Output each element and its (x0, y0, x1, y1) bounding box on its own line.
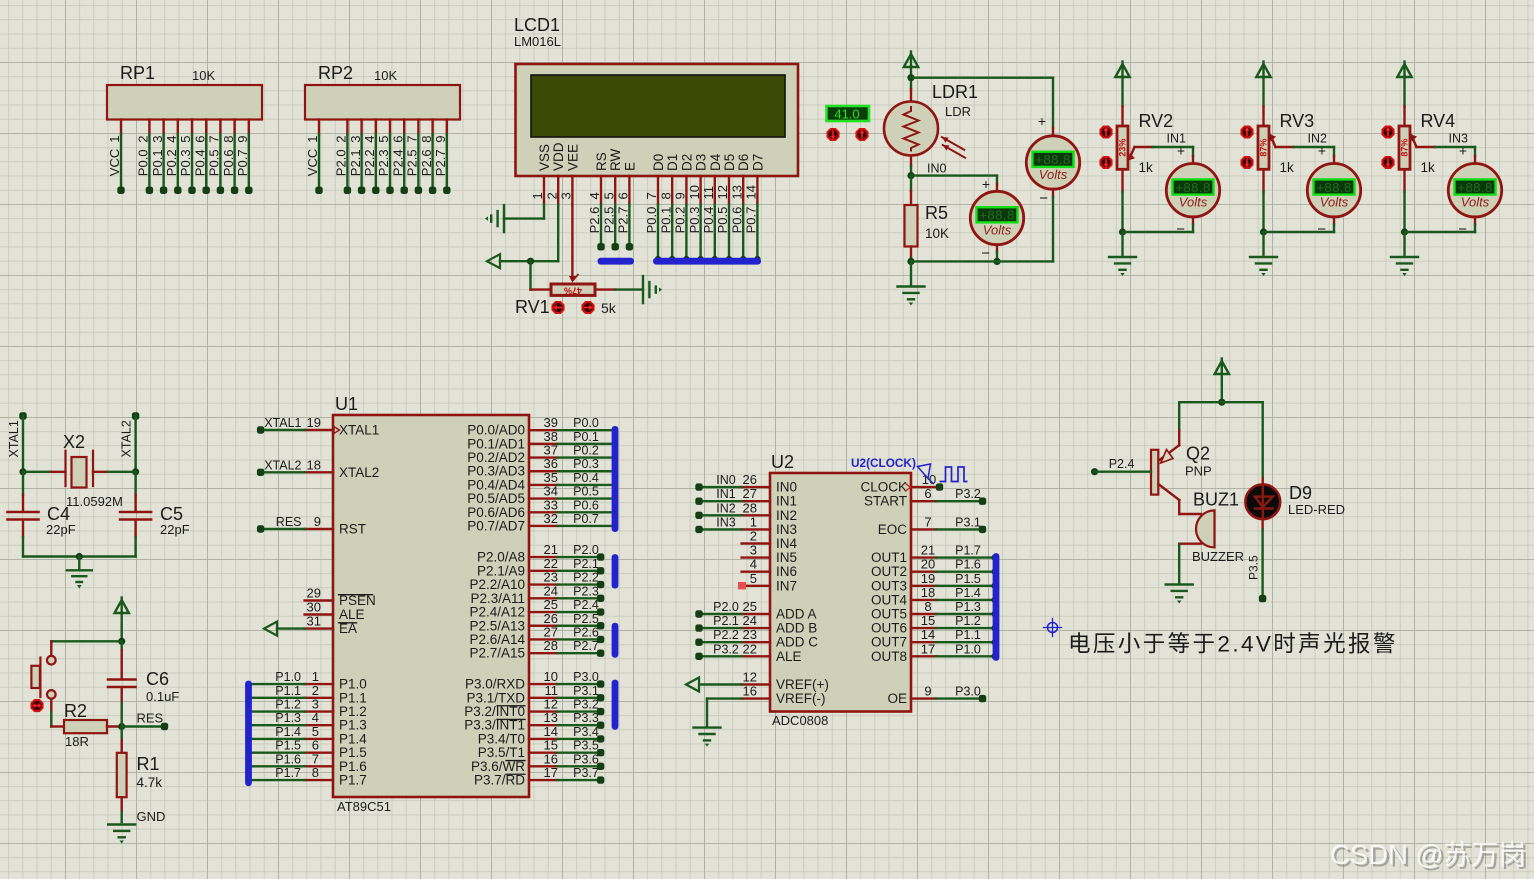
svg-text:9: 9 (673, 192, 688, 199)
svg-text:13: 13 (729, 185, 744, 199)
svg-text:RV1: RV1 (515, 297, 550, 317)
svg-text:P1.5: P1.5 (275, 739, 301, 753)
svg-text:P1.0: P1.0 (275, 670, 301, 684)
svg-text:P2.7/A15: P2.7/A15 (469, 646, 525, 661)
svg-text:ALE: ALE (339, 607, 365, 622)
svg-text:7: 7 (924, 514, 931, 529)
svg-text:P0.4: P0.4 (701, 207, 716, 234)
svg-text:9: 9 (924, 684, 931, 699)
svg-text:OUT1: OUT1 (871, 550, 907, 565)
svg-text:P0.6: P0.6 (729, 207, 744, 234)
svg-text:D7: D7 (750, 154, 765, 171)
svg-text:P1.1: P1.1 (275, 684, 301, 698)
svg-text:P3.2: P3.2 (573, 698, 599, 712)
svg-text:P3.2: P3.2 (955, 487, 981, 501)
svg-text:P2.3: P2.3 (376, 149, 391, 176)
svg-text:IN1: IN1 (716, 487, 736, 501)
svg-text:22pF: 22pF (46, 522, 76, 537)
svg-text:XTAL2: XTAL2 (339, 465, 379, 480)
svg-text:P1.2: P1.2 (275, 698, 301, 712)
svg-text:P2.6: P2.6 (419, 149, 434, 176)
svg-text:P3.5: P3.5 (1247, 555, 1261, 580)
svg-text:+88.8: +88.8 (1457, 180, 1492, 195)
svg-text:2: 2 (334, 136, 349, 143)
svg-text:P2.1: P2.1 (348, 149, 363, 176)
svg-text:ADC0808: ADC0808 (772, 713, 828, 728)
svg-text:2: 2 (750, 529, 757, 544)
svg-text:1k: 1k (1139, 160, 1154, 175)
svg-text:ALE: ALE (776, 649, 802, 664)
svg-text:3: 3 (348, 136, 363, 143)
svg-text:27: 27 (743, 486, 757, 501)
svg-text:BUZZER: BUZZER (1192, 549, 1244, 564)
svg-text:P0.6: P0.6 (221, 149, 236, 176)
svg-text:5: 5 (376, 136, 391, 143)
svg-text:PNP: PNP (1185, 464, 1212, 479)
svg-text:1: 1 (305, 136, 320, 143)
svg-text:P1.0: P1.0 (955, 642, 981, 656)
svg-text:2: 2 (136, 136, 151, 143)
svg-text:23: 23 (743, 627, 757, 642)
svg-text:P2.6: P2.6 (573, 625, 599, 639)
svg-text:Volts: Volts (983, 223, 1012, 238)
svg-text:P0.4: P0.4 (192, 149, 207, 176)
svg-text:1: 1 (750, 514, 757, 529)
svg-text:U2: U2 (771, 452, 794, 472)
svg-text:+88.8: +88.8 (1035, 152, 1070, 167)
svg-text:P2.4: P2.4 (390, 149, 405, 176)
svg-text:P0.7: P0.7 (573, 512, 599, 526)
svg-text:23%: 23% (1118, 139, 1128, 157)
svg-text:8: 8 (924, 599, 931, 614)
svg-text:ADD C: ADD C (776, 635, 818, 650)
svg-text:R5: R5 (925, 203, 948, 223)
svg-text:IN0: IN0 (716, 473, 736, 487)
svg-text:RP2: RP2 (318, 63, 353, 83)
svg-text:+: + (1038, 113, 1046, 129)
svg-text:30: 30 (307, 600, 321, 615)
svg-text:−: − (1317, 221, 1326, 238)
svg-text:RS: RS (594, 152, 609, 171)
svg-text:XTAL1: XTAL1 (264, 416, 301, 430)
svg-text:7: 7 (207, 136, 222, 143)
svg-text:VCC: VCC (305, 149, 320, 176)
svg-text:Volts: Volts (1320, 195, 1349, 210)
svg-text:10: 10 (687, 185, 702, 199)
svg-text:15: 15 (921, 613, 935, 628)
svg-text:8: 8 (312, 765, 319, 780)
svg-text:P2.2: P2.2 (362, 149, 377, 176)
svg-text:VDD: VDD (551, 142, 566, 171)
svg-text:19: 19 (921, 571, 935, 586)
svg-text:P3.6: P3.6 (573, 752, 599, 766)
svg-text:D1: D1 (665, 154, 680, 171)
svg-text:OUT2: OUT2 (871, 564, 907, 579)
svg-text:18: 18 (307, 457, 321, 472)
svg-text:26: 26 (743, 472, 757, 487)
svg-text:OUT8: OUT8 (871, 649, 907, 664)
svg-text:29: 29 (307, 586, 321, 601)
svg-text:U1: U1 (335, 394, 358, 414)
svg-text:P3.4: P3.4 (573, 725, 599, 739)
svg-text:17: 17 (544, 765, 558, 780)
svg-text:IN6: IN6 (776, 564, 797, 579)
svg-text:OUT6: OUT6 (871, 621, 907, 636)
svg-text:P1.3: P1.3 (955, 600, 981, 614)
svg-text:24: 24 (743, 613, 757, 628)
svg-text:P2.1: P2.1 (573, 557, 599, 571)
svg-text:START: START (864, 494, 907, 509)
svg-text:22: 22 (743, 641, 757, 656)
svg-text:18: 18 (921, 585, 935, 600)
svg-text:P1.3: P1.3 (275, 711, 301, 725)
svg-text:7: 7 (644, 192, 659, 199)
svg-text:P0.1: P0.1 (658, 207, 673, 234)
svg-text:7: 7 (405, 136, 420, 143)
svg-text:P0.2: P0.2 (164, 149, 179, 176)
svg-text:OUT3: OUT3 (871, 578, 907, 593)
svg-text:D9: D9 (1289, 483, 1312, 503)
svg-text:Volts: Volts (1039, 167, 1068, 182)
svg-text:RV2: RV2 (1139, 111, 1174, 131)
svg-text:4: 4 (164, 136, 179, 143)
svg-text:Volts: Volts (1179, 195, 1208, 210)
svg-text:IN5: IN5 (776, 550, 797, 565)
svg-text:+: + (982, 176, 990, 192)
svg-text:P1.5: P1.5 (955, 572, 981, 586)
svg-text:2: 2 (544, 192, 559, 199)
svg-text:P0.2: P0.2 (673, 207, 688, 234)
svg-text:14: 14 (921, 627, 935, 642)
svg-text:25: 25 (743, 599, 757, 614)
svg-text:D4: D4 (708, 153, 723, 171)
svg-text:1: 1 (530, 192, 545, 199)
svg-text:D6: D6 (736, 154, 751, 171)
svg-text:OUT4: OUT4 (871, 592, 907, 607)
svg-text:−: − (1176, 221, 1185, 238)
svg-text:4.7k: 4.7k (137, 775, 163, 790)
svg-text:IN3: IN3 (776, 522, 797, 537)
svg-text:4: 4 (587, 192, 602, 199)
svg-text:D0: D0 (651, 154, 666, 171)
svg-text:1k: 1k (1280, 160, 1295, 175)
svg-text:87%: 87% (1259, 139, 1269, 157)
svg-text:6: 6 (390, 136, 405, 143)
svg-text:10K: 10K (374, 68, 397, 83)
svg-text:11.0592M: 11.0592M (66, 494, 123, 509)
svg-text:P3.2: P3.2 (713, 642, 739, 656)
svg-text:IN0: IN0 (927, 162, 947, 176)
svg-text:P3.1: P3.1 (955, 515, 981, 529)
svg-text:Q2: Q2 (1186, 444, 1210, 464)
svg-text:14: 14 (744, 185, 759, 199)
svg-text:8: 8 (419, 136, 434, 143)
svg-text:P0.4: P0.4 (573, 471, 599, 485)
svg-text:P2.5: P2.5 (573, 612, 599, 626)
svg-text:P1.6: P1.6 (275, 752, 301, 766)
svg-text:P1.7: P1.7 (275, 766, 301, 780)
svg-text:P2.7: P2.7 (616, 207, 631, 234)
svg-text:IN2: IN2 (716, 501, 736, 515)
svg-text:P3.0: P3.0 (573, 670, 599, 684)
svg-text:10K: 10K (192, 68, 215, 83)
svg-text:U2(CLOCK): U2(CLOCK) (851, 456, 916, 470)
svg-text:32: 32 (544, 511, 558, 526)
svg-text:P2.5: P2.5 (405, 149, 420, 176)
svg-text:C5: C5 (160, 504, 183, 524)
svg-text:P0.3: P0.3 (178, 149, 193, 176)
svg-text:P2.7: P2.7 (433, 149, 448, 176)
svg-text:P0.0: P0.0 (573, 416, 599, 430)
svg-text:RES: RES (276, 515, 302, 529)
svg-text:OE: OE (887, 691, 907, 706)
svg-text:GND: GND (137, 809, 166, 824)
svg-text:P0.3: P0.3 (687, 207, 702, 234)
svg-text:31: 31 (307, 614, 321, 629)
svg-text:16: 16 (743, 684, 757, 699)
svg-text:12: 12 (715, 185, 730, 199)
svg-text:IN4: IN4 (776, 536, 798, 551)
svg-text:P3.5: P3.5 (573, 739, 599, 753)
svg-text:ADD B: ADD B (776, 621, 817, 636)
svg-text:BUZ1: BUZ1 (1193, 490, 1239, 510)
svg-text:9: 9 (235, 136, 250, 143)
svg-text:8: 8 (658, 192, 673, 199)
svg-text:P2.2: P2.2 (573, 571, 599, 585)
svg-text:R1: R1 (137, 754, 160, 774)
svg-text:P3.1: P3.1 (573, 684, 599, 698)
svg-text:5: 5 (178, 136, 193, 143)
svg-text:RV3: RV3 (1280, 111, 1315, 131)
svg-text:0.1uF: 0.1uF (146, 689, 179, 704)
svg-text:P2.4: P2.4 (1109, 457, 1135, 471)
svg-text:C4: C4 (47, 504, 70, 524)
svg-text:ADD A: ADD A (776, 607, 817, 622)
svg-text:Volts: Volts (1461, 195, 1490, 210)
svg-text:P0.5: P0.5 (573, 485, 599, 499)
svg-text:20: 20 (921, 557, 935, 572)
svg-text:P2.5: P2.5 (601, 207, 616, 234)
svg-text:P3.7: P3.7 (573, 766, 599, 780)
svg-text:P2.4: P2.4 (573, 598, 599, 612)
svg-text:P0.1: P0.1 (573, 430, 599, 444)
svg-text:5: 5 (601, 192, 616, 199)
svg-text:−: − (1458, 221, 1467, 238)
svg-text:P2.0: P2.0 (334, 149, 349, 176)
svg-text:P0.7: P0.7 (744, 207, 759, 234)
svg-text:5: 5 (750, 571, 757, 586)
svg-text:LDR1: LDR1 (932, 82, 978, 102)
svg-text:+88.8: +88.8 (979, 208, 1014, 223)
svg-text:3: 3 (750, 543, 757, 558)
svg-text:18R: 18R (65, 734, 89, 749)
svg-text:3: 3 (150, 136, 165, 143)
svg-text:CSDN @苏万岗: CSDN @苏万岗 (1330, 839, 1526, 870)
svg-text:VEE: VEE (565, 144, 580, 171)
svg-text:P0.5: P0.5 (207, 149, 222, 176)
svg-text:C6: C6 (146, 669, 169, 689)
svg-text:LCD1: LCD1 (514, 15, 560, 35)
svg-text:OUT5: OUT5 (871, 607, 907, 622)
svg-text:P0.0: P0.0 (644, 207, 659, 234)
svg-text:IN1: IN1 (1167, 132, 1187, 146)
svg-text:XTAL2: XTAL2 (264, 458, 301, 472)
svg-text:87%: 87% (1400, 139, 1410, 157)
svg-text:IN7: IN7 (776, 578, 797, 593)
svg-text:VCC: VCC (107, 149, 122, 176)
svg-text:9: 9 (433, 136, 448, 143)
svg-text:17: 17 (921, 641, 935, 656)
svg-text:5k: 5k (601, 300, 617, 316)
svg-text:1: 1 (107, 136, 122, 143)
svg-text:P2.1: P2.1 (713, 614, 739, 628)
svg-text:P1.7: P1.7 (339, 773, 367, 788)
svg-text:P0.3: P0.3 (573, 457, 599, 471)
svg-text:IN1: IN1 (776, 494, 797, 509)
svg-text:LDR: LDR (945, 104, 971, 119)
svg-text:P2.0: P2.0 (573, 543, 599, 557)
svg-text:4: 4 (362, 136, 377, 143)
svg-text:8: 8 (221, 136, 236, 143)
svg-text:LM016L: LM016L (514, 34, 561, 49)
svg-text:P1.6: P1.6 (955, 558, 981, 572)
svg-text:P1.2: P1.2 (955, 614, 981, 628)
svg-text:10K: 10K (925, 226, 949, 241)
svg-text:IN2: IN2 (776, 508, 797, 523)
svg-text:XTAL1: XTAL1 (7, 420, 21, 457)
svg-text:RP1: RP1 (120, 63, 155, 83)
svg-text:RW: RW (608, 148, 623, 171)
svg-text:D5: D5 (722, 154, 737, 171)
svg-text:9: 9 (314, 514, 321, 529)
svg-text:P0.0: P0.0 (136, 149, 151, 176)
svg-text:6: 6 (616, 192, 631, 199)
svg-text:VSS: VSS (537, 144, 552, 171)
svg-text:OUT7: OUT7 (871, 635, 907, 650)
svg-text:VREF(+): VREF(+) (776, 677, 829, 692)
svg-text:−: − (981, 245, 990, 262)
svg-text:IN0: IN0 (776, 480, 797, 495)
svg-text:CLOCK: CLOCK (860, 480, 907, 495)
svg-text:P1.4: P1.4 (275, 725, 301, 739)
svg-text:11: 11 (701, 186, 716, 200)
svg-text:RES: RES (137, 711, 164, 726)
svg-text:RV4: RV4 (1421, 111, 1456, 131)
svg-text:12: 12 (743, 670, 757, 685)
svg-text:P0.2: P0.2 (573, 444, 599, 458)
svg-text:P2.0: P2.0 (713, 600, 739, 614)
svg-text:LED-RED: LED-RED (1288, 502, 1345, 517)
svg-text:+88.8: +88.8 (1175, 180, 1210, 195)
svg-text:6: 6 (924, 486, 931, 501)
svg-text:1k: 1k (1421, 160, 1436, 175)
svg-text:R2: R2 (64, 701, 87, 721)
svg-text:P1.7: P1.7 (955, 544, 981, 558)
svg-text:21: 21 (921, 543, 935, 558)
svg-text:P0.7/AD7: P0.7/AD7 (467, 518, 525, 533)
svg-text:+88.8: +88.8 (1316, 180, 1351, 195)
svg-text:P3.0: P3.0 (955, 685, 981, 699)
svg-text:IN2: IN2 (1308, 132, 1328, 146)
svg-text:X2: X2 (63, 432, 85, 452)
svg-text:P3.3: P3.3 (573, 711, 599, 725)
svg-text:P2.3: P2.3 (573, 584, 599, 598)
svg-text:P0.7: P0.7 (235, 149, 250, 176)
svg-text:28: 28 (544, 638, 558, 653)
svg-text:XTAL1: XTAL1 (339, 423, 379, 438)
svg-text:−: − (1039, 190, 1048, 207)
svg-text:AT89C51: AT89C51 (337, 799, 391, 814)
svg-text:D3: D3 (694, 154, 709, 171)
svg-text:D2: D2 (679, 154, 694, 171)
svg-text:P2.7: P2.7 (573, 639, 599, 653)
svg-text:47%: 47% (564, 286, 582, 296)
svg-text:6: 6 (192, 136, 207, 143)
svg-text:19: 19 (307, 415, 321, 430)
svg-text:P1.4: P1.4 (955, 586, 981, 600)
svg-text:IN3: IN3 (1449, 132, 1469, 146)
svg-text:P2.2: P2.2 (713, 628, 739, 642)
svg-text:RST: RST (339, 522, 366, 537)
svg-text:P0.5: P0.5 (715, 207, 730, 234)
svg-text:EOC: EOC (878, 522, 908, 537)
svg-text:VREF(-): VREF(-) (776, 691, 826, 706)
svg-text:28: 28 (743, 500, 757, 515)
svg-text:4: 4 (750, 557, 757, 572)
svg-text:XTAL2: XTAL2 (120, 420, 134, 457)
svg-text:E: E (622, 162, 637, 171)
svg-text:P0.6: P0.6 (573, 498, 599, 512)
svg-text:P2.6: P2.6 (587, 207, 602, 234)
svg-text:3: 3 (559, 192, 574, 199)
svg-text:IN3: IN3 (716, 515, 736, 529)
svg-text:P0.1: P0.1 (150, 149, 165, 176)
svg-text:电压小于等于2.4V时声光报警: 电压小于等于2.4V时声光报警 (1068, 632, 1398, 657)
svg-text:41.0: 41.0 (834, 107, 859, 122)
svg-text:P1.1: P1.1 (955, 628, 981, 642)
svg-text:22pF: 22pF (160, 522, 190, 537)
